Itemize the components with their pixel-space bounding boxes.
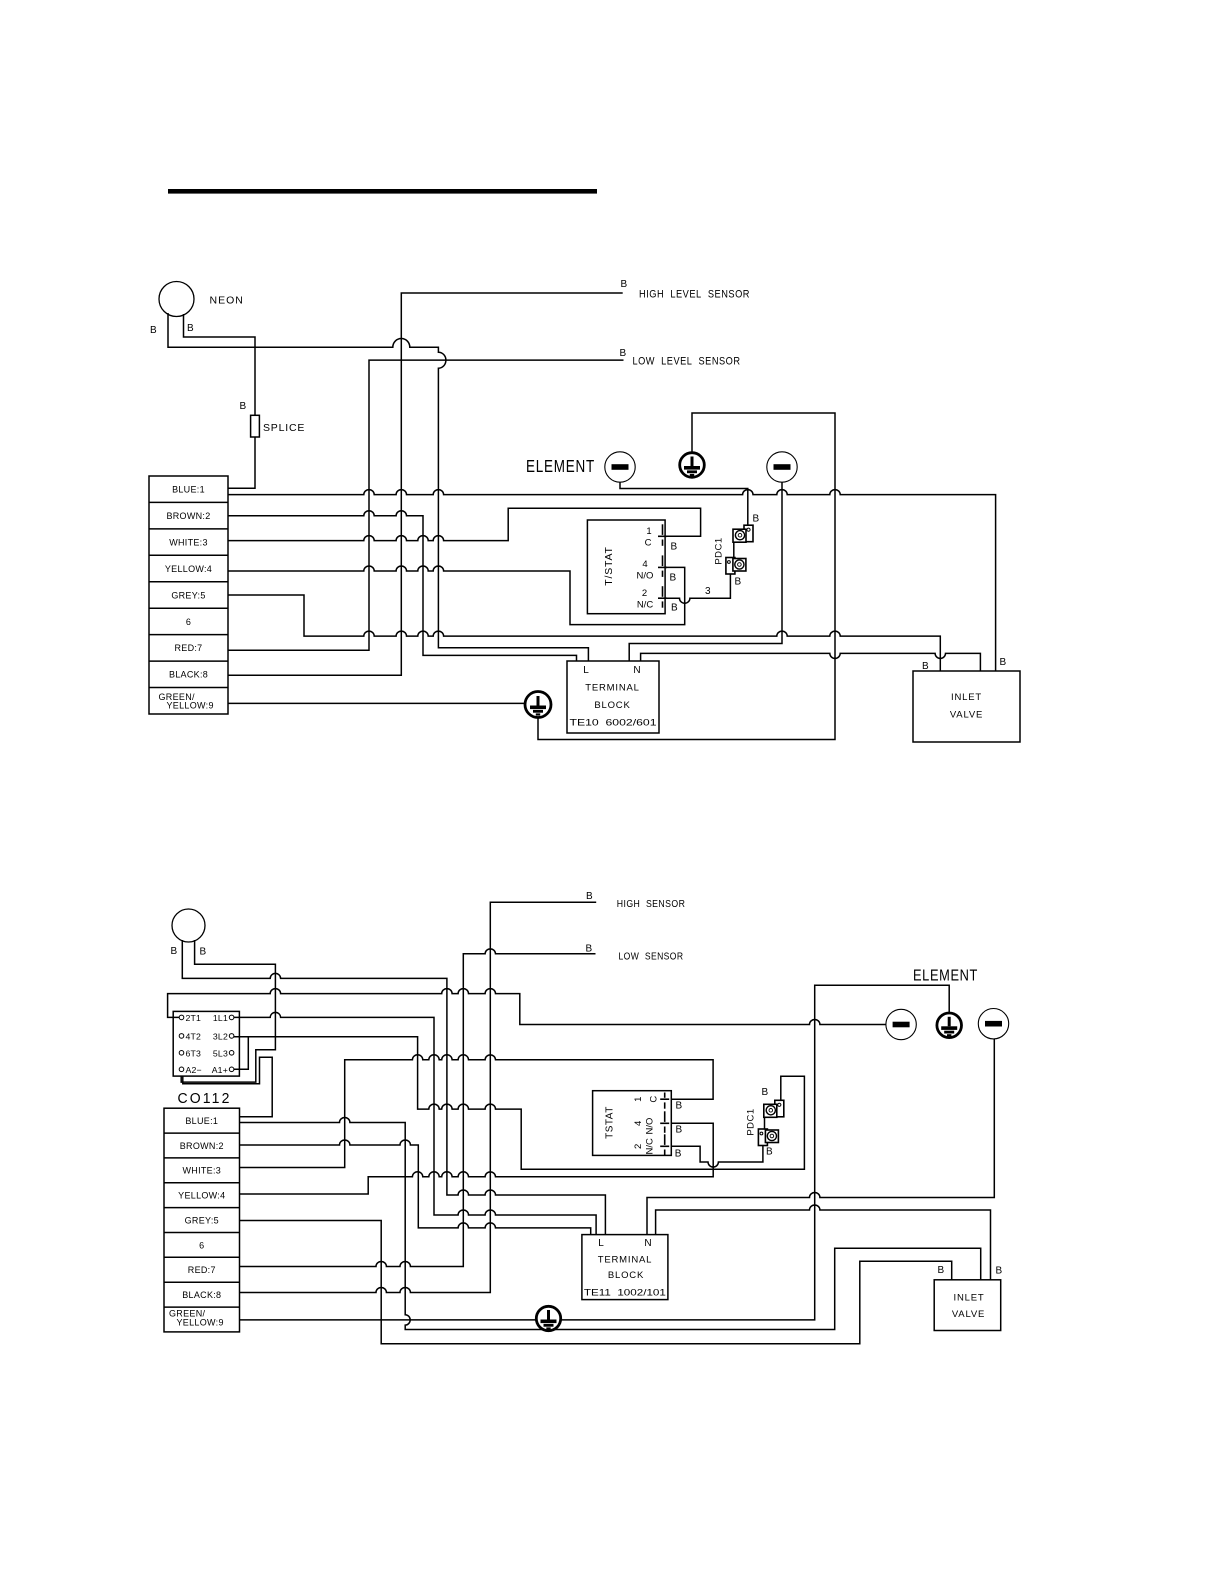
svg-text:N: N — [633, 665, 640, 676]
wire element E1 to PDC1 — [620, 482, 748, 525]
svg-text:PDC1: PDC1 — [746, 1108, 757, 1135]
svg-text:TERMINAL: TERMINAL — [585, 683, 639, 694]
svg-text:N/C: N/C — [644, 1138, 655, 1155]
wire terminal block N to inlet valve — [641, 653, 981, 671]
wire BROWN:2 to terminal block L (lower) — [240, 1140, 591, 1235]
wire BLUE:1 to inlet valve — [228, 490, 996, 671]
svg-text:TERMINAL: TERMINAL — [598, 1255, 652, 1266]
svg-text:B: B — [753, 514, 760, 525]
svg-text:HIGH SENSOR: HIGH SENSOR — [617, 898, 686, 910]
wire high level sensor / BLACK:8 — [228, 293, 623, 675]
svg-text:1: 1 — [633, 1097, 644, 1102]
svg-text:WHITE:3: WHITE:3 — [182, 1166, 221, 1176]
wire TSTAT pin2 to PDC1 (lower) — [671, 1146, 763, 1168]
wire GREY:5 to inlet valve — [228, 595, 940, 671]
svg-text:B: B — [938, 1265, 945, 1276]
svg-text:HIGH LEVEL SENSOR: HIGH LEVEL SENSOR — [639, 289, 750, 301]
svg-text:6T3: 6T3 — [186, 1048, 202, 1058]
TSTAT pin 4 tick (lower) — [664, 1111, 666, 1122]
svg-text:INLET: INLET — [954, 1293, 985, 1304]
svg-text:N/O: N/O — [637, 571, 654, 582]
wire T/STAT pin2 N/C to PDC1 — [665, 574, 730, 603]
element terminal E3 — [767, 452, 797, 482]
svg-text:B: B — [996, 1266, 1003, 1277]
svg-text:RED:7: RED:7 — [174, 643, 202, 653]
wire BROWN:2 to terminal block L — [228, 511, 577, 661]
svg-text:4: 4 — [633, 1121, 644, 1126]
svg-text:A2−: A2− — [186, 1065, 202, 1075]
PDC1 connector pair upper — [744, 525, 753, 542]
svg-text:VALVE: VALVE — [952, 1309, 985, 1320]
svg-text:L: L — [598, 1238, 604, 1249]
svg-text:GREY:5: GREY:5 — [185, 1215, 219, 1225]
wire PDC1 internal link — [733, 542, 735, 557]
svg-text:N/O: N/O — [644, 1118, 655, 1135]
neon lamp NE2 — [172, 909, 205, 942]
svg-text:4T2: 4T2 — [186, 1031, 202, 1041]
svg-text:B: B — [621, 279, 628, 290]
wire YELLOW:4 to TSTAT pin 4 (lower) — [240, 1123, 714, 1194]
svg-text:B: B — [586, 944, 593, 955]
svg-text:T/STAT: T/STAT — [603, 546, 615, 585]
svg-text:N/C: N/C — [637, 600, 654, 611]
svg-text:B: B — [735, 577, 742, 588]
terminal block TE11 box — [582, 1235, 668, 1300]
element terminal E4 — [886, 1009, 916, 1039]
svg-text:BROWN:2: BROWN:2 — [166, 511, 210, 521]
svg-text:LOW LEVEL SENSOR: LOW LEVEL SENSOR — [633, 356, 741, 368]
terminal block TE10 box — [567, 661, 659, 733]
svg-text:BLACK:8: BLACK:8 — [169, 670, 208, 680]
svg-text:3: 3 — [705, 586, 711, 597]
svg-text:B: B — [620, 348, 627, 359]
svg-text:PDC1: PDC1 — [714, 537, 725, 564]
svg-text:ELEMENT: ELEMENT — [526, 456, 595, 476]
wire WHITE:3 to T/STAT pin 1 C — [228, 508, 701, 540]
T/STAT pin 2 tick — [662, 586, 664, 597]
svg-text:B: B — [670, 573, 677, 584]
svg-text:YELLOW:9: YELLOW:9 — [177, 1318, 224, 1328]
T/STAT pin 4 tick — [662, 555, 664, 566]
svg-text:B: B — [150, 325, 157, 336]
svg-text:4: 4 — [642, 559, 647, 570]
wire neon left lead to terminal block L — [168, 313, 588, 661]
svg-text:LOW SENSOR: LOW SENSOR — [619, 951, 684, 963]
svg-text:B: B — [671, 603, 678, 614]
svg-text:B: B — [671, 542, 678, 553]
wire WHITE:3 to TSTAT pin 1 (lower) — [240, 1055, 714, 1168]
PDC1 connector pair lower (lower) — [758, 1129, 767, 1146]
svg-text:B: B — [762, 1087, 769, 1098]
wire neon right lead to splice to BLUE:1 — [184, 314, 256, 488]
svg-text:B: B — [676, 1125, 683, 1136]
svg-text:6: 6 — [199, 1240, 204, 1250]
svg-text:INLET: INLET — [951, 692, 982, 703]
svg-text:2: 2 — [633, 1144, 644, 1149]
splice SP1 — [251, 415, 260, 437]
wire 3L2/A1+ to PDC1 upper (lower) — [234, 1037, 805, 1170]
element terminal E1 — [605, 452, 635, 482]
svg-text:TSTAT: TSTAT — [605, 1106, 616, 1139]
svg-text:N: N — [644, 1238, 651, 1249]
svg-text:TE10 6002/601: TE10 6002/601 — [570, 718, 657, 729]
svg-text:3L2: 3L2 — [213, 1031, 228, 1041]
svg-text:WHITE:3: WHITE:3 — [169, 537, 208, 547]
svg-text:YELLOW:4: YELLOW:4 — [165, 564, 212, 574]
wire neon2 right lead to contactor A2- — [181, 940, 275, 1082]
svg-text:RED:7: RED:7 — [188, 1265, 216, 1275]
TSTAT pin 2 tick (lower) — [664, 1134, 666, 1145]
wire 2T1 to element E1 (lower) — [168, 989, 887, 1025]
wire terminal block N to inlet valve (lower) — [656, 1205, 991, 1280]
svg-text:1: 1 — [646, 526, 651, 537]
PDC1 connector pair lower — [726, 558, 735, 575]
title underline bar — [168, 189, 597, 194]
svg-text:5L3: 5L3 — [213, 1048, 228, 1058]
earth symbol E-GND2 — [536, 1306, 560, 1330]
thermostat U2 TSTAT box — [593, 1091, 672, 1156]
svg-text:C: C — [645, 538, 652, 549]
element earth terminal E2 — [680, 453, 705, 478]
terminal strip TB1 (9-way) — [149, 476, 228, 714]
wire PDC1 internal link (lower) — [764, 1117, 766, 1129]
wire BLUE:1 to inlet valve (lower) — [240, 1118, 981, 1330]
svg-text:B: B — [1000, 657, 1007, 668]
wire element E6 to terminal block N (lower) — [647, 1039, 994, 1235]
wire GREEN/YELLOW:9 to earth — [228, 702, 525, 704]
svg-text:B: B — [586, 891, 593, 902]
wire contactor A2- to BLUE:1 upper — [183, 1057, 272, 1117]
wire YELLOW:4 to T/STAT pin 4 N/O — [228, 566, 685, 625]
svg-text:A1+: A1+ — [212, 1065, 228, 1075]
wire earth to element earth pin (lower) — [561, 985, 950, 1320]
svg-text:L: L — [583, 665, 589, 676]
svg-text:B: B — [675, 1148, 682, 1159]
svg-text:BLOCK: BLOCK — [608, 1270, 644, 1281]
svg-text:C: C — [648, 1096, 659, 1103]
svg-text:B: B — [200, 947, 207, 958]
wire element E3 to terminal block N — [629, 482, 782, 661]
wire neon2 left lead to terminal block L (TE11) — [182, 940, 605, 1235]
wire GREY:5 to inlet valve (lower) — [240, 1221, 952, 1344]
svg-text:2T1: 2T1 — [186, 1013, 202, 1023]
inlet valve V1 box — [913, 671, 1020, 742]
element earth terminal E5 — [937, 1013, 962, 1038]
element terminal E6 — [978, 1009, 1008, 1039]
svg-text:B: B — [676, 1100, 683, 1111]
svg-text:TE11 1002/101: TE11 1002/101 — [584, 1288, 666, 1299]
svg-text:BLACK:8: BLACK:8 — [182, 1290, 221, 1300]
svg-text:2: 2 — [642, 588, 647, 599]
svg-text:BROWN:2: BROWN:2 — [180, 1141, 224, 1151]
PDC1 connector pair upper (lower) — [775, 1100, 784, 1117]
wire BLACK:8 to high sensor (lower) — [240, 902, 597, 1292]
wire GREEN/YELLOW:9 to earth (lower) — [240, 1319, 537, 1321]
svg-text:BLOCK: BLOCK — [594, 700, 630, 711]
contactor CO112 box with terminals — [173, 1011, 239, 1076]
svg-text:B: B — [766, 1147, 773, 1158]
svg-text:6: 6 — [186, 617, 191, 627]
svg-text:B: B — [171, 946, 178, 957]
svg-text:BLUE:1: BLUE:1 — [185, 1116, 218, 1126]
terminal strip TB2 (9-way) — [164, 1108, 240, 1332]
svg-text:GREY:5: GREY:5 — [171, 590, 205, 600]
wire 1L1 to terminal block L (TE11) — [234, 1012, 596, 1234]
thermostat U1 T/STAT box — [587, 520, 665, 614]
svg-text:ELEMENT: ELEMENT — [913, 968, 978, 985]
TSTAT pin 1 tick (lower) — [664, 1093, 666, 1098]
inlet valve V2 box — [934, 1280, 1001, 1331]
svg-text:1L1: 1L1 — [213, 1013, 228, 1023]
svg-text:YELLOW:9: YELLOW:9 — [167, 701, 214, 711]
svg-text:B: B — [240, 401, 247, 412]
wire RED:7 to low sensor (lower) — [240, 949, 596, 1267]
wire earth to element earth pin — [538, 413, 835, 740]
svg-text:YELLOW:4: YELLOW:4 — [178, 1191, 225, 1201]
earth symbol E-GND1 — [525, 692, 551, 718]
neon lamp NE1 — [159, 282, 194, 317]
svg-text:BLUE:1: BLUE:1 — [172, 485, 205, 495]
wire A1+ branch — [234, 1037, 248, 1070]
svg-text:B: B — [922, 661, 929, 672]
wire low level sensor / RED:7 — [228, 360, 624, 650]
svg-text:NEON: NEON — [210, 295, 244, 307]
T/STAT pin 1 tick — [662, 524, 664, 535]
svg-text:SPLICE: SPLICE — [263, 422, 305, 434]
svg-text:VALVE: VALVE — [950, 710, 983, 721]
svg-text:CO112: CO112 — [178, 1091, 232, 1107]
svg-text:B: B — [187, 323, 194, 334]
